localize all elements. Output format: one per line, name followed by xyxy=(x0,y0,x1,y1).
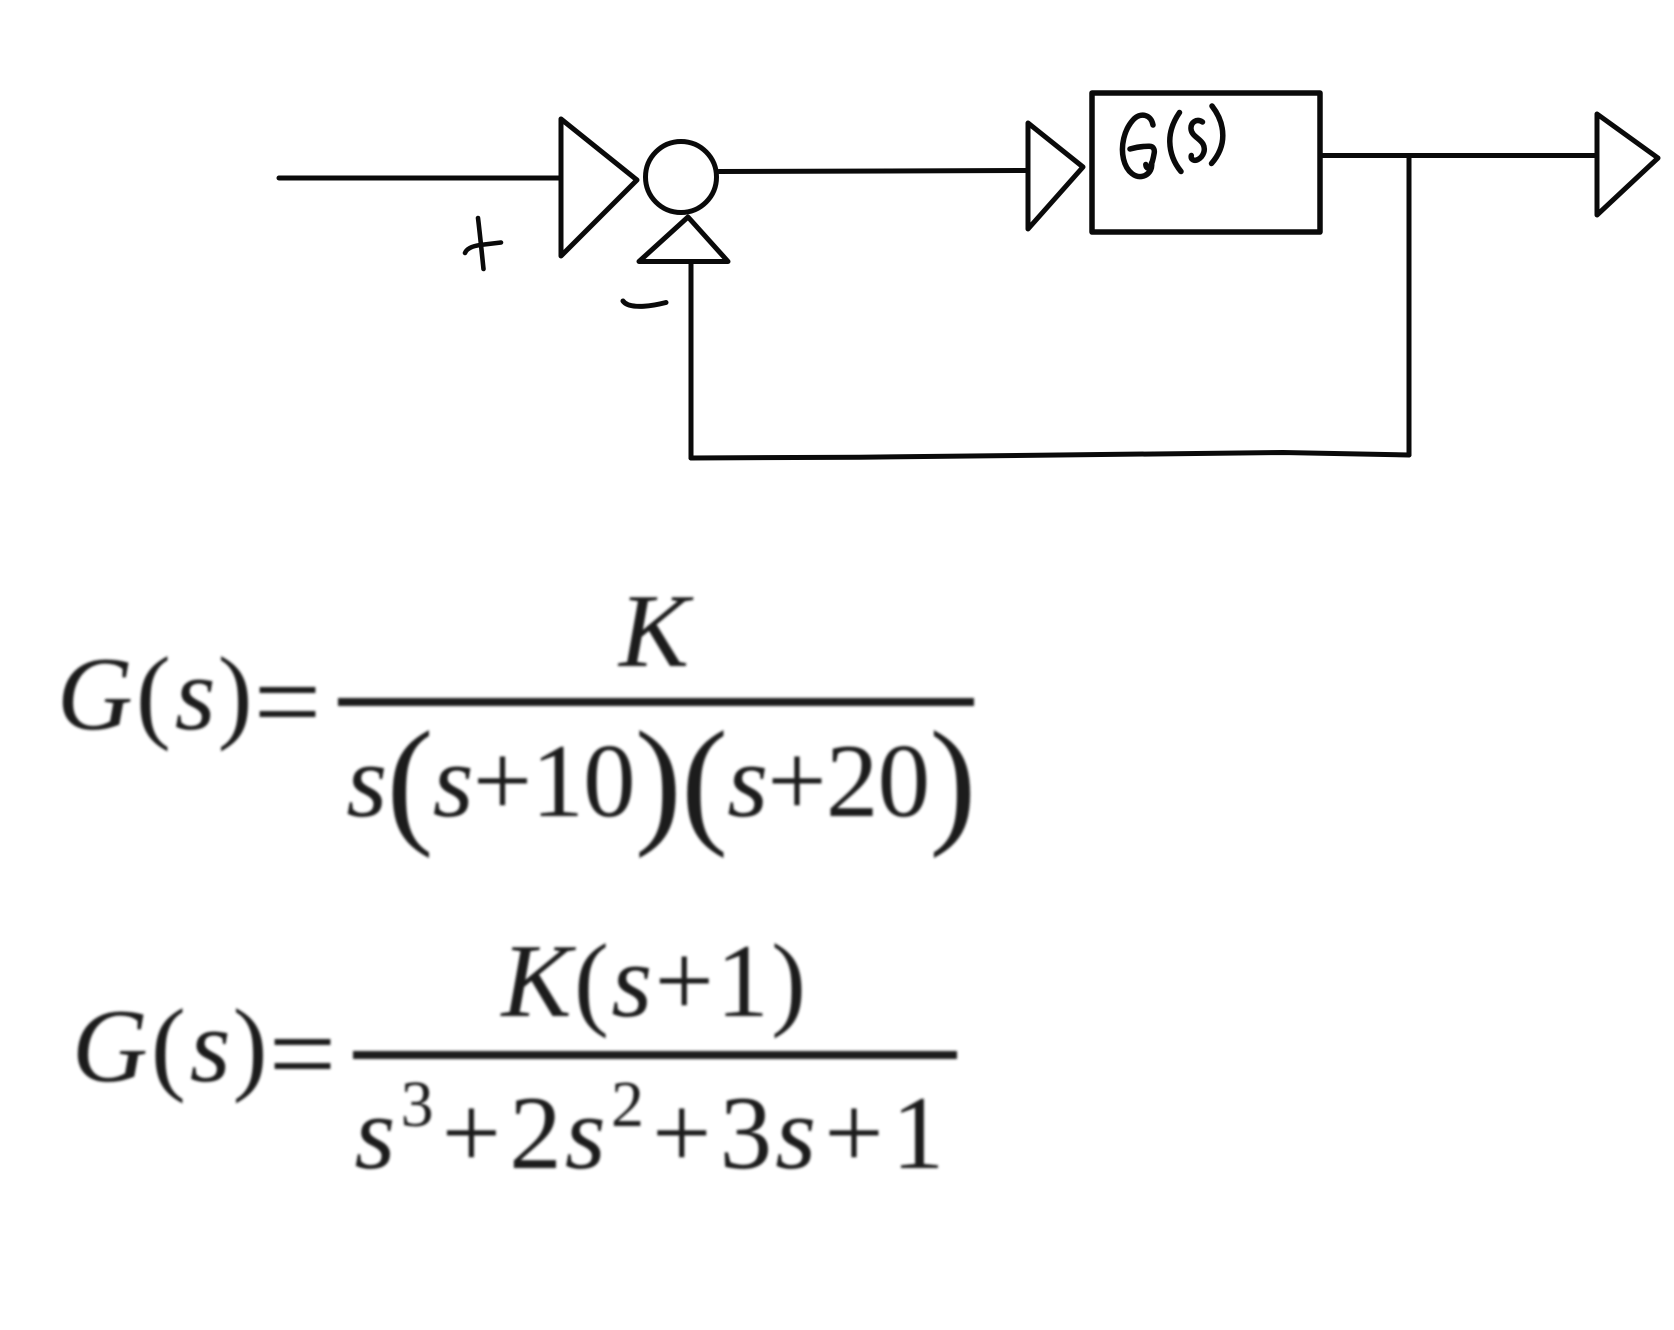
svg-text:K: K xyxy=(617,572,694,689)
svg-text:s(s+10)(s+20): s(s+10)(s+20) xyxy=(346,703,975,859)
svg-text:K(s+1): K(s+1) xyxy=(500,922,809,1039)
svg-text:G(s)=: G(s)= xyxy=(57,635,321,768)
svg-text:G(s)=: G(s)= xyxy=(72,987,336,1120)
